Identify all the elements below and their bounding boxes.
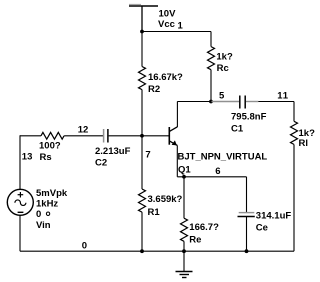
svg-text:1k?: 1k? (216, 51, 233, 62)
svg-text:1: 1 (178, 21, 184, 32)
wire emitter down (177, 145, 246, 176)
svg-text:3.659k?: 3.659k? (148, 194, 183, 205)
wire input corner node 13 (20, 135, 41, 189)
capacitor Ce (238, 177, 255, 251)
resistor Re (181, 218, 188, 241)
power Vcc symbol (129, 4, 158, 6)
wire R1 bottom lead (141, 212, 143, 251)
svg-text:Vin: Vin (36, 220, 51, 231)
wire C2 to node 7 (109, 135, 142, 137)
wire Rc top lead (210, 32, 212, 47)
svg-text:11: 11 (277, 91, 289, 102)
resistor Rs (41, 132, 64, 139)
svg-text:12: 12 (78, 125, 89, 136)
svg-text:166.7?: 166.7? (189, 222, 219, 233)
svg-text:5mVpk: 5mVpk (36, 188, 68, 199)
capacitor C2 (104, 129, 108, 143)
svg-text:R1: R1 (148, 207, 161, 218)
junction Re bottom (182, 249, 186, 253)
svg-text:Ce: Ce (256, 223, 268, 234)
svg-text:10V: 10V (159, 9, 177, 20)
svg-text:Vcc: Vcc (158, 19, 175, 30)
svg-text:795.8nF: 795.8nF (231, 112, 267, 123)
wire collector to node 5 (177, 101, 211, 103)
junction node 5 (209, 100, 213, 104)
svg-text:Rs: Rs (40, 152, 52, 163)
svg-text:314.1uF: 314.1uF (256, 210, 292, 221)
wire Re top lead (183, 177, 185, 218)
junction Ce bottom (245, 249, 249, 253)
wire node 11 (258, 102, 294, 122)
capacitor C1 (212, 96, 259, 109)
svg-text:13: 13 (22, 152, 33, 163)
wire base (142, 135, 169, 137)
svg-text:Re: Re (189, 234, 201, 245)
svg-text:Rc: Rc (217, 63, 229, 74)
wire Rc bottom lead (210, 70, 212, 102)
junction R1 bottom (140, 249, 144, 253)
junction node 7 (140, 134, 144, 138)
resistor Rc (208, 47, 215, 70)
svg-text:C1: C1 (231, 124, 244, 135)
wire source bottom (19, 215, 21, 251)
wire R2 top lead (141, 32, 143, 67)
wire bottom rail node 0 (20, 250, 294, 252)
AC source Vin (7, 189, 33, 215)
ground (176, 251, 193, 277)
svg-text:7: 7 (145, 149, 150, 160)
wire R1 top lead (141, 136, 143, 189)
svg-text:Rl: Rl (299, 138, 309, 149)
svg-text:16.67k?: 16.67k? (148, 72, 183, 83)
junction node1 (140, 30, 144, 34)
svg-text:Q1: Q1 (178, 165, 191, 176)
svg-text:2.213uF: 2.213uF (95, 146, 131, 157)
wire Rl bottom lead (293, 144, 295, 251)
svg-text:6: 6 (215, 166, 220, 177)
wire R2 bottom lead (141, 90, 143, 136)
wire Vcc stub (141, 6, 143, 32)
resistor Rl (291, 121, 298, 144)
svg-text:0: 0 (82, 241, 87, 252)
wire top rail node1 (142, 31, 211, 33)
junction node 6 (182, 175, 186, 179)
wire Re bottom lead (183, 241, 185, 251)
svg-text:100?: 100? (39, 141, 61, 152)
svg-text:BJT_NPN_VIRTUAL: BJT_NPN_VIRTUAL (178, 152, 268, 163)
wire Rs to C2 node 12 (64, 135, 103, 137)
resistor R2 (139, 67, 146, 90)
transistor Q1 (169, 102, 178, 146)
svg-text:5: 5 (219, 90, 225, 101)
svg-text:R2: R2 (148, 84, 160, 95)
svg-text:C2: C2 (95, 158, 107, 169)
resistor R1 (139, 189, 146, 212)
